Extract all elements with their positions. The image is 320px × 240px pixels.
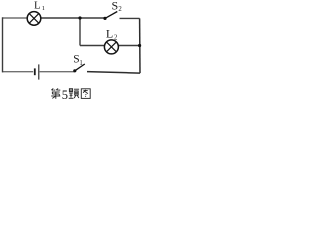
svg-text:2: 2	[118, 6, 122, 13]
svg-text:L: L	[34, 0, 41, 12]
svg-text:5: 5	[62, 88, 68, 102]
svg-text:2: 2	[114, 35, 118, 42]
svg-text:1: 1	[42, 5, 45, 12]
svg-text:L: L	[106, 26, 113, 40]
svg-text:1: 1	[79, 60, 82, 67]
svg-text:S: S	[112, 0, 119, 12]
